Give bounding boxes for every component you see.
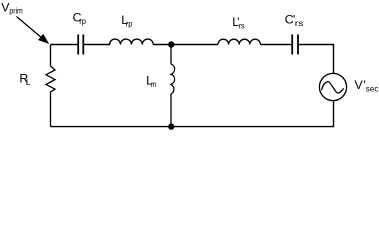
wire: top-left corner to Crp <box>51 44 79 46</box>
svg-text:Lm: Lm <box>146 74 157 89</box>
node Vprim label <box>1 0 23 15</box>
svg-text:RL: RL <box>19 71 31 86</box>
svg-text:V'sec: V'sec <box>355 78 379 94</box>
label Crp <box>73 10 87 25</box>
inductor Lm <box>171 45 175 127</box>
wire: Crp to Lrp <box>83 44 110 46</box>
junction top node <box>168 41 174 47</box>
capacitor C'rs <box>292 35 298 55</box>
label RL <box>19 71 31 86</box>
label V'sec <box>355 78 379 94</box>
wire: L'rs to C'rs <box>260 44 292 46</box>
svg-text:L'rs: L'rs <box>232 15 244 30</box>
source V'sec <box>319 73 346 100</box>
wire: Vprim arrow pointer <box>17 17 50 45</box>
label Lm <box>146 74 157 89</box>
wire: source bottom to bottom rail <box>51 101 334 127</box>
svg-text:Vprim: Vprim <box>1 0 23 15</box>
svg-text:Lrp: Lrp <box>121 13 133 28</box>
junction bottom node <box>168 123 174 129</box>
svg-text:Crp: Crp <box>73 10 87 25</box>
capacitor Crp <box>78 35 83 55</box>
label L'rs <box>232 15 244 30</box>
label Lrp <box>121 13 133 28</box>
resistor RL <box>46 45 55 127</box>
inductor Lrp <box>110 39 154 44</box>
label C'rs <box>285 13 304 28</box>
inductor L'rs <box>218 39 260 44</box>
svg-text:C'rs: C'rs <box>285 13 304 28</box>
wire: Lrp to L'rs through node <box>153 44 218 46</box>
wire: C'rs to source top <box>298 45 334 74</box>
